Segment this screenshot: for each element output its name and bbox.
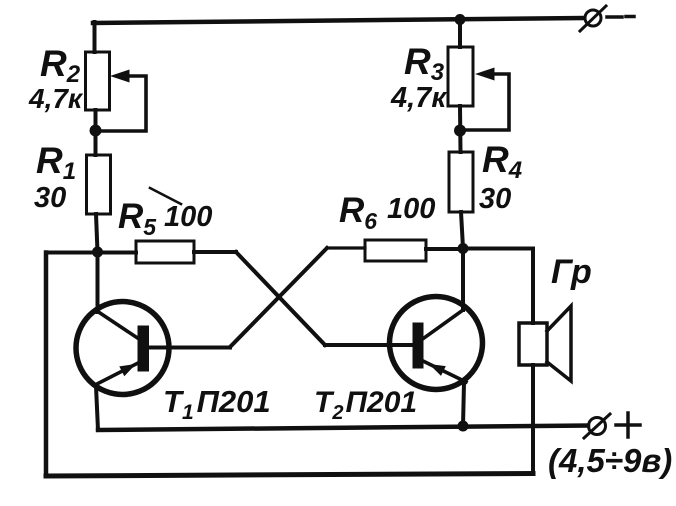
svg-text:T1П201: T1П201 [163,384,271,424]
resistor R5 [136,241,194,263]
svg-text:30: 30 [479,183,511,215]
wire diagonal R5 to T2 base [236,252,325,345]
terminal minus [580,6,606,31]
wire R5 to diagonal [194,250,236,254]
svg-text:T2П201: T2П201 [314,386,417,424]
transistor T2 [390,297,483,390]
terminal plus [584,414,610,438]
wiper R2 [102,70,146,132]
svg-text:100: 100 [164,201,212,233]
transistor T1 [76,302,169,395]
wire top minus rail [93,18,583,23]
node below R3 [454,125,466,137]
wire T2 base run [325,343,414,347]
wire right drop to R3 [458,20,462,47]
wire diagonal R6 to T1 base [230,248,327,347]
label minus [607,15,634,19]
node below R2 [90,125,102,137]
resistor R2 [86,52,110,110]
svg-text:30: 30 [34,182,66,214]
svg-text:R3: R3 [404,41,445,86]
svg-text:4,7к: 4,7к [28,83,84,114]
svg-text:R1: R1 [36,140,76,185]
resistor R1 [87,155,111,214]
node T2 collector junction [458,243,469,254]
wire speaker top drop [531,249,535,324]
wire speaker bottom drop [531,365,535,473]
wire node to speaker corner [463,247,533,251]
svg-text:R5: R5 [118,197,157,240]
svg-text:Гр: Гр [551,253,592,291]
node on plus rail [458,421,469,432]
resistor R4 [449,152,473,212]
svg-text:R4: R4 [482,139,522,184]
wire left return [44,253,49,477]
wire R6 left stub [327,246,365,249]
wire node to R5 [46,251,136,255]
resistor R6 [365,240,426,261]
wire R4 to node [461,212,463,248]
wire T2 collector drop [461,248,465,310]
wire T1 emitter drop [96,386,98,430]
svg-text:R2: R2 [40,43,81,88]
resistor R3 [448,47,473,106]
wire R3 to R4 [458,106,463,152]
node top rail junction [455,14,466,25]
wire plus rail [98,426,588,431]
svg-text:(4,5÷9в): (4,5÷9в) [548,442,672,479]
wire bottom return [46,474,533,477]
wire R2 to R1 [94,110,98,155]
leader line R5 [150,188,181,204]
wire left drop to R2 [93,22,97,52]
svg-text:100: 100 [387,193,435,225]
node T1 collector junction [92,247,103,258]
wiper R3 [466,68,509,131]
speaker Gr [519,306,571,381]
svg-text:4,7к: 4,7к [390,82,447,114]
wire T1 collector drop [96,252,100,312]
wire R6 right to node [426,247,463,251]
wire R1 to node [96,214,98,252]
svg-text:R6: R6 [339,191,377,234]
label plus [616,413,640,437]
wire T1 base run [149,346,230,350]
wire T2 emitter drop [463,383,464,426]
